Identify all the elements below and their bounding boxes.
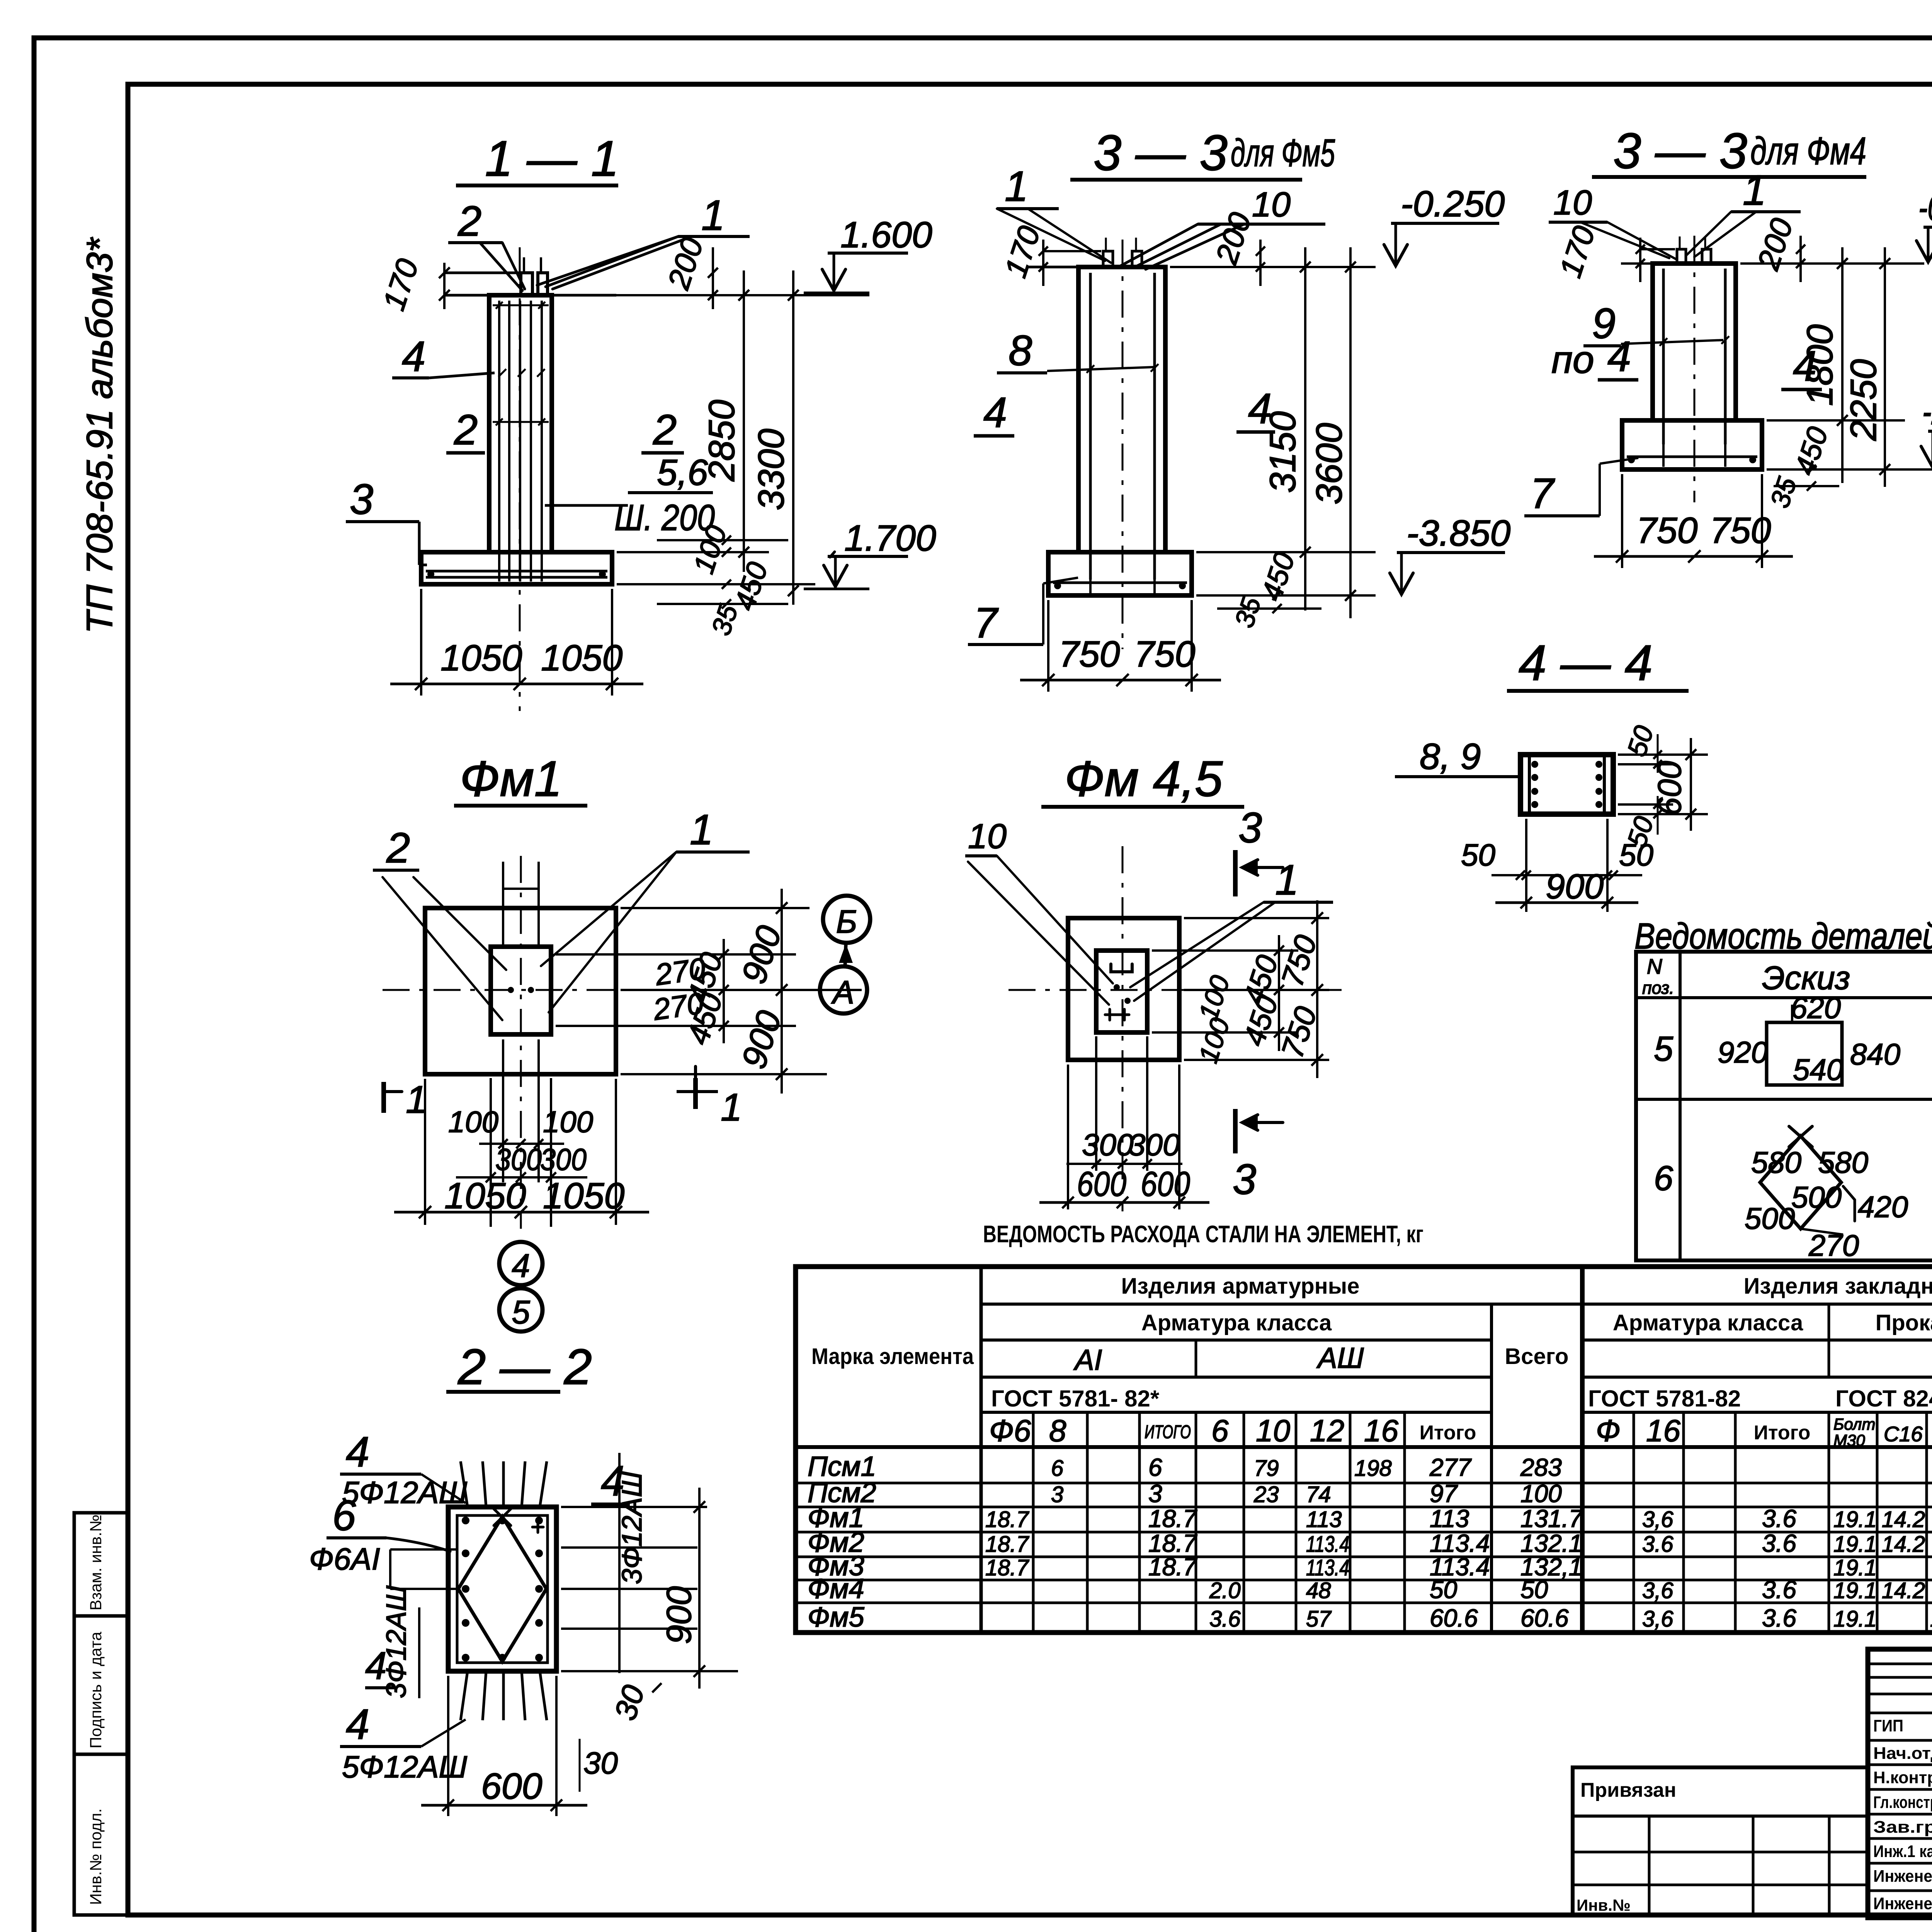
svg-text:3150: 3150 [1262, 411, 1303, 493]
svg-text:270: 270 [651, 986, 706, 1027]
svg-text:Фм4: Фм4 [808, 1573, 864, 1604]
svg-text:ГОСТ 8240- 72*: ГОСТ 8240- 72* [1835, 1386, 1932, 1412]
svg-text:900: 900 [1546, 867, 1604, 906]
svg-text:АI: АI [1073, 1344, 1102, 1376]
svg-text:3Ф12АШ: 3Ф12АШ [617, 1471, 648, 1584]
svg-text:113: 113 [1306, 1507, 1342, 1532]
svg-text:50: 50 [1619, 838, 1653, 872]
svg-text:Ф6АI: Ф6АI [309, 1542, 380, 1576]
svg-text:30: 30 [608, 1681, 651, 1724]
svg-text:-3.850: -3.850 [1406, 513, 1511, 554]
svg-text:3Ф12АШ: 3Ф12АШ [381, 1585, 412, 1698]
svg-text:3600: 3600 [1309, 423, 1350, 505]
svg-text:Итого: Итого [1754, 1422, 1811, 1444]
svg-text:3.6: 3.6 [1762, 1604, 1796, 1632]
svg-text:ИТОГО: ИТОГО [1145, 1422, 1191, 1442]
svg-text:Ф6: Ф6 [989, 1413, 1031, 1448]
svg-text:50: 50 [1430, 1576, 1458, 1604]
svg-text:1050: 1050 [440, 638, 522, 679]
svg-text:1.700: 1.700 [844, 518, 936, 559]
svg-text:60.6: 60.6 [1520, 1604, 1569, 1632]
svg-text:Н.контр.: Н.контр. [1873, 1768, 1932, 1787]
svg-text:100: 100 [1193, 1014, 1235, 1066]
svg-text:по: по [1551, 338, 1594, 381]
svg-text:Всего: Всего [1505, 1344, 1568, 1369]
svg-text:12: 12 [1310, 1413, 1344, 1448]
svg-text:3.6: 3.6 [1762, 1576, 1796, 1604]
svg-text:198: 198 [1354, 1456, 1392, 1481]
svg-text:57: 57 [1306, 1607, 1332, 1632]
svg-text:19.1: 19.1 [1833, 1578, 1877, 1603]
svg-text:18.7: 18.7 [1148, 1553, 1197, 1581]
svg-text:3: 3 [1051, 1482, 1063, 1507]
svg-text:30: 30 [583, 1746, 618, 1780]
svg-text:6: 6 [1211, 1413, 1229, 1448]
svg-text:Гл.констр.: Гл.констр. [1873, 1793, 1932, 1812]
svg-text:170: 170 [1553, 222, 1602, 281]
svg-text:60.6: 60.6 [1430, 1604, 1478, 1632]
svg-text:Арматура класса: Арматура класса [1141, 1310, 1332, 1335]
svg-text:ГОСТ 5781-82: ГОСТ 5781-82 [1588, 1386, 1741, 1412]
svg-text:3: 3 [350, 476, 373, 523]
svg-text:6: 6 [1051, 1456, 1064, 1481]
svg-text:200: 200 [1209, 208, 1258, 268]
svg-text:6: 6 [1654, 1159, 1673, 1198]
svg-text:Инженер: Инженер [1873, 1867, 1932, 1886]
svg-text:-0.250: -0.250 [1918, 187, 1932, 228]
svg-text:16: 16 [1646, 1413, 1680, 1448]
svg-text:500: 500 [1745, 1201, 1795, 1235]
svg-text:420: 420 [1858, 1190, 1908, 1224]
svg-text:113.4: 113.4 [1306, 1532, 1349, 1557]
svg-text:2: 2 [653, 406, 677, 454]
svg-text:Болт: Болт [1833, 1415, 1875, 1433]
svg-text:Инв.№ подл.: Инв.№ подл. [87, 1808, 105, 1905]
svg-text:1050: 1050 [543, 1175, 625, 1216]
svg-text:2 — 2: 2 — 2 [457, 1338, 592, 1395]
svg-text:Арматура класса: Арматура класса [1613, 1310, 1803, 1335]
svg-text:14.2: 14.2 [1882, 1507, 1925, 1532]
svg-text:50: 50 [1461, 838, 1495, 872]
svg-text:18.4: 18.4 [1930, 1607, 1932, 1632]
svg-text:200: 200 [661, 233, 710, 293]
svg-text:3.6: 3.6 [1762, 1505, 1796, 1532]
svg-text:8: 8 [1049, 1413, 1066, 1448]
svg-text:23: 23 [1253, 1482, 1279, 1507]
svg-text:Зав.гр.: Зав.гр. [1873, 1818, 1932, 1837]
svg-text:35: 35 [1229, 593, 1267, 631]
svg-text:79: 79 [1254, 1456, 1279, 1481]
svg-text:5: 5 [512, 1294, 530, 1331]
svg-text:С16: С16 [1884, 1422, 1923, 1446]
svg-text:300: 300 [540, 1142, 587, 1177]
svg-text:600: 600 [481, 1766, 543, 1807]
svg-text:1: 1 [690, 806, 713, 854]
svg-text:1: 1 [721, 1086, 742, 1129]
svg-text:Б: Б [836, 903, 857, 940]
svg-text:Нач.отд: Нач.отд [1873, 1744, 1932, 1763]
svg-text:50: 50 [1520, 1576, 1548, 1604]
svg-text:Привязан: Привязан [1580, 1779, 1676, 1801]
svg-text:300: 300 [495, 1142, 542, 1177]
svg-text:Инв.№: Инв.№ [1577, 1896, 1631, 1914]
svg-text:580: 580 [1818, 1145, 1868, 1179]
svg-text:35: 35 [1764, 473, 1803, 511]
svg-text:Подпись и дата: Подпись и дата [87, 1631, 105, 1748]
svg-text:7: 7 [1530, 470, 1555, 517]
svg-text:3300: 3300 [751, 429, 792, 510]
svg-text:1.600: 1.600 [840, 214, 932, 255]
svg-text:М30: М30 [1833, 1431, 1865, 1449]
svg-text:АШ: АШ [1316, 1342, 1364, 1374]
svg-text:ВЕДОМОСТЬ РАСХОДА СТАЛИ НА: ВЕДОМОСТЬ РАСХОДА СТАЛИ НА ЭЛЕМЕНТ, кг [983, 1221, 1423, 1248]
svg-text:1050: 1050 [541, 638, 623, 679]
svg-text:N: N [1647, 954, 1662, 978]
svg-text:ГОСТ 5781- 82*: ГОСТ 5781- 82* [991, 1386, 1160, 1412]
svg-text:2: 2 [454, 406, 478, 454]
svg-text:19.1: 19.1 [1833, 1555, 1877, 1580]
svg-text:7: 7 [974, 599, 999, 647]
svg-text:113.4: 113.4 [1306, 1555, 1349, 1580]
svg-text:540: 540 [1793, 1053, 1843, 1087]
svg-text:3.6: 3.6 [1642, 1532, 1673, 1557]
svg-text:18.7: 18.7 [985, 1532, 1030, 1557]
svg-text:А: А [831, 974, 854, 1010]
svg-text:6: 6 [1148, 1453, 1162, 1481]
svg-text:-0.250: -0.250 [1401, 184, 1505, 224]
svg-text:Изделия закладные: Изделия закладные [1744, 1274, 1932, 1299]
svg-text:Фм5: Фм5 [808, 1602, 865, 1633]
svg-text:1: 1 [701, 192, 725, 239]
svg-text:19.1: 19.1 [1833, 1532, 1877, 1557]
svg-text:300: 300 [1128, 1128, 1180, 1162]
svg-text:3,6: 3,6 [1642, 1578, 1673, 1603]
svg-text:3: 3 [1233, 1156, 1256, 1203]
svg-text:3.6: 3.6 [1762, 1529, 1796, 1557]
svg-text:1800: 1800 [1799, 324, 1840, 406]
svg-text:113: 113 [1430, 1505, 1469, 1532]
svg-text:1: 1 [1743, 167, 1766, 214]
svg-text:3 — 3: 3 — 3 [1094, 124, 1228, 181]
svg-text:100: 100 [1520, 1480, 1562, 1508]
svg-text:900: 900 [660, 1586, 699, 1644]
svg-text:18.7: 18.7 [985, 1555, 1030, 1580]
svg-text:750: 750 [1275, 1002, 1323, 1062]
svg-text:19.1: 19.1 [1833, 1607, 1877, 1632]
svg-text:3.6: 3.6 [1209, 1607, 1241, 1632]
svg-text:1: 1 [1275, 856, 1299, 904]
svg-text:Инженер: Инженер [1873, 1894, 1932, 1913]
svg-text:3 — 3: 3 — 3 [1613, 122, 1747, 179]
svg-text:170: 170 [998, 222, 1047, 281]
svg-text:620: 620 [1791, 991, 1841, 1025]
svg-text:Прокат марки: Прокат марки [1876, 1310, 1932, 1335]
svg-text:750: 750 [1636, 510, 1698, 551]
svg-text:200: 200 [1751, 214, 1799, 274]
svg-text:Марка элемента: Марка элемента [811, 1344, 974, 1369]
svg-text:Инж.1 кат: Инж.1 кат [1873, 1842, 1932, 1861]
svg-text:131.7: 131.7 [1520, 1505, 1583, 1532]
svg-text:750: 750 [1059, 634, 1120, 675]
svg-text:5,6: 5,6 [657, 452, 708, 493]
svg-text:19.1: 19.1 [1833, 1507, 1877, 1532]
svg-text:4: 4 [346, 1428, 369, 1476]
svg-text:для Фм4: для Фм4 [1750, 129, 1866, 173]
svg-text:14.2: 14.2 [1882, 1578, 1925, 1603]
svg-text:48: 48 [1306, 1578, 1331, 1603]
svg-text:600: 600 [1077, 1165, 1126, 1204]
svg-text:300: 300 [1082, 1128, 1133, 1162]
svg-text:170: 170 [376, 255, 425, 314]
svg-text:2850: 2850 [701, 400, 742, 482]
svg-text:3,6: 3,6 [1642, 1507, 1673, 1532]
svg-text:8, 9: 8, 9 [1420, 736, 1481, 777]
svg-text:3: 3 [1238, 804, 1262, 852]
svg-text:10: 10 [1256, 1413, 1290, 1448]
svg-text:ГИП: ГИП [1873, 1716, 1903, 1735]
svg-text:16: 16 [1364, 1413, 1398, 1448]
svg-text:поз.: поз. [1642, 978, 1674, 998]
svg-text:10: 10 [1553, 184, 1592, 222]
svg-text:Ф: Ф [1596, 1413, 1621, 1448]
svg-text:2.0: 2.0 [1209, 1578, 1241, 1603]
svg-text:4: 4 [346, 1701, 369, 1748]
svg-text:97: 97 [1430, 1480, 1458, 1508]
svg-text:-2.500: -2.500 [1922, 391, 1932, 432]
svg-text:4: 4 [1607, 333, 1631, 380]
svg-text:4: 4 [402, 333, 425, 380]
svg-text:10: 10 [1252, 185, 1291, 224]
svg-text:Взам. инв.№: Взам. инв.№ [87, 1514, 105, 1611]
svg-text:18.7: 18.7 [985, 1507, 1030, 1532]
svg-text:1 — 1: 1 — 1 [485, 130, 619, 187]
svg-text:1050: 1050 [444, 1175, 526, 1216]
svg-text:580: 580 [1751, 1145, 1801, 1179]
svg-text:750: 750 [1710, 510, 1771, 551]
svg-text:920: 920 [1718, 1035, 1768, 1069]
svg-text:14.2: 14.2 [1882, 1532, 1925, 1557]
svg-text:6: 6 [332, 1492, 356, 1539]
svg-text:750: 750 [1134, 634, 1196, 675]
svg-text:Фм 4,5: Фм 4,5 [1065, 750, 1223, 807]
svg-text:2: 2 [457, 197, 481, 245]
svg-text:277: 277 [1429, 1453, 1472, 1481]
svg-text:5: 5 [1654, 1030, 1673, 1068]
svg-text:8: 8 [1009, 327, 1032, 374]
svg-text:ТП 708-65.91 альбом3*: ТП 708-65.91 альбом3* [79, 237, 120, 634]
svg-text:Фм1: Фм1 [460, 750, 562, 807]
svg-text:100: 100 [1193, 972, 1235, 1024]
svg-text:18.7: 18.7 [1148, 1505, 1197, 1532]
svg-text:4 — 4: 4 — 4 [1519, 634, 1653, 691]
svg-text:2250: 2250 [1843, 359, 1884, 441]
svg-text:10: 10 [968, 817, 1007, 856]
svg-text:3,6: 3,6 [1642, 1607, 1673, 1632]
svg-text:4: 4 [983, 389, 1007, 436]
svg-text:840: 840 [1850, 1037, 1900, 1071]
svg-text:Изделия арматурные: Изделия арматурные [1121, 1274, 1360, 1299]
svg-text:500: 500 [1791, 1180, 1842, 1214]
svg-text:283: 283 [1520, 1453, 1562, 1481]
svg-text:3: 3 [1148, 1480, 1162, 1508]
svg-text:74: 74 [1306, 1482, 1331, 1507]
svg-text:4: 4 [512, 1248, 530, 1284]
svg-text:1: 1 [1005, 163, 1028, 210]
svg-text:450: 450 [728, 558, 774, 614]
svg-text:Итого: Итого [1420, 1422, 1476, 1444]
svg-text:для Фм5: для Фм5 [1231, 131, 1335, 175]
svg-text:2: 2 [386, 824, 410, 872]
